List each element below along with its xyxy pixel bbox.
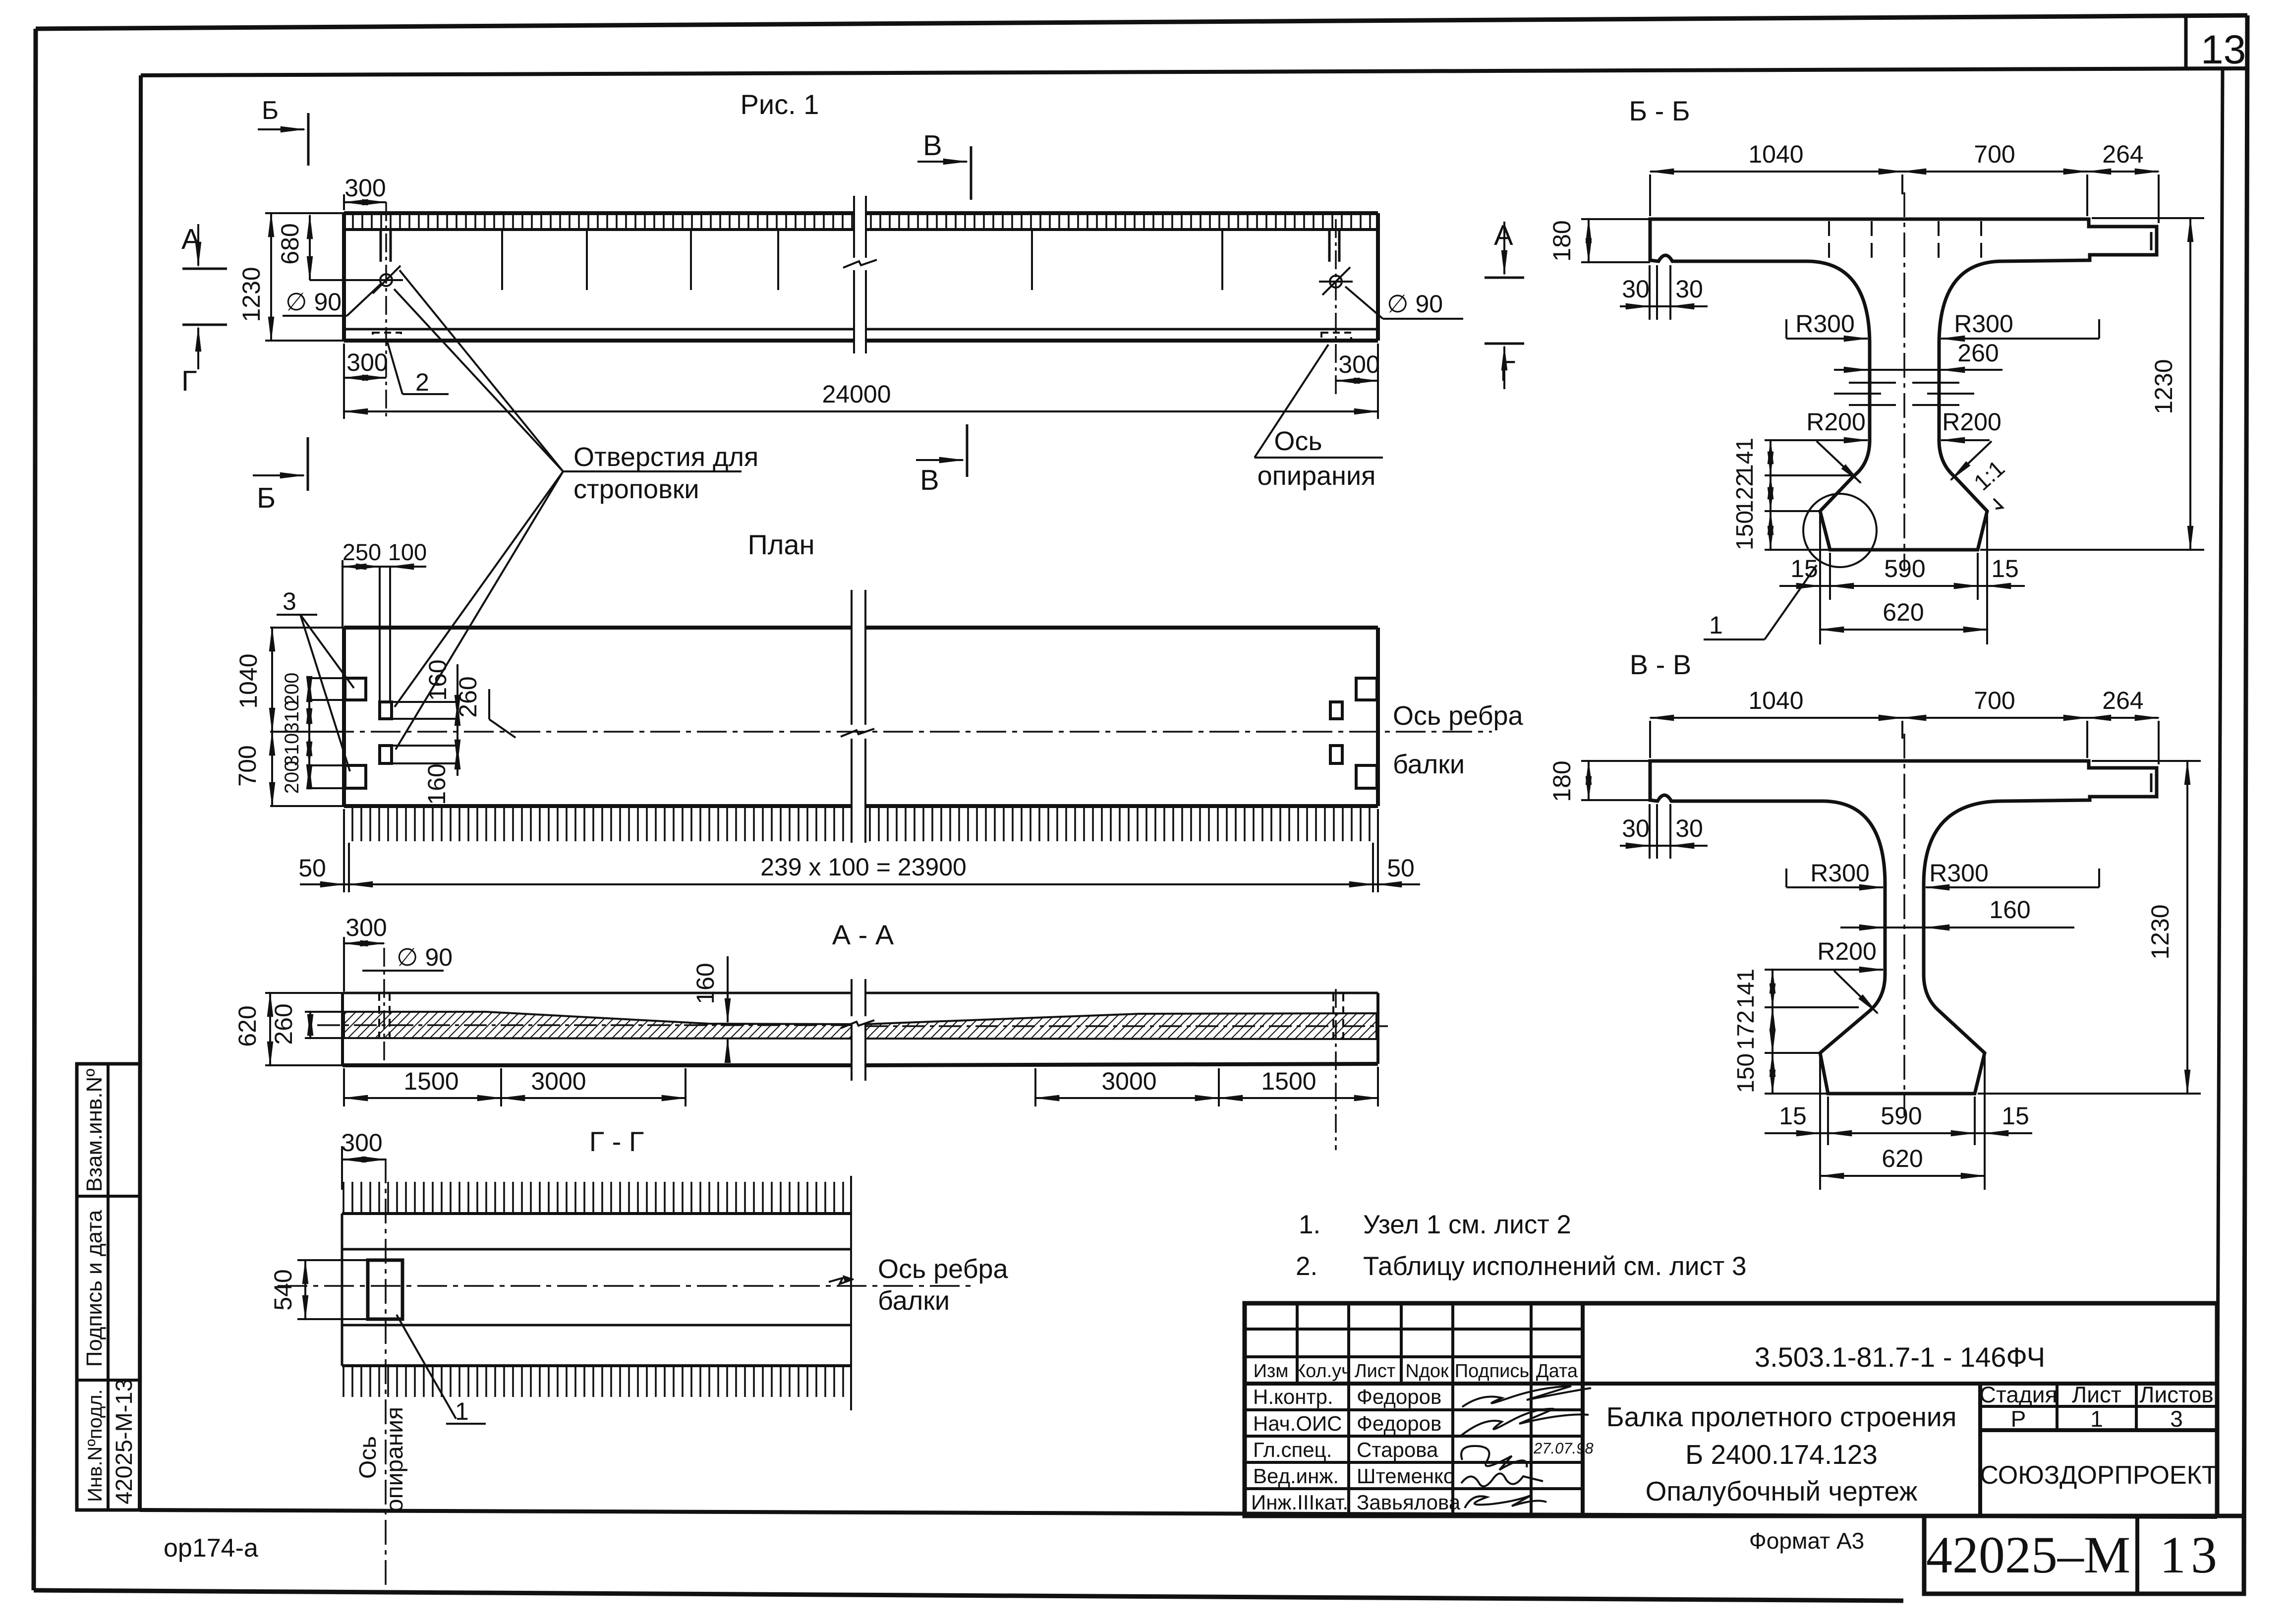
bottom doc number divider — [2135, 1516, 2139, 1594]
svg-text:строповки: строповки — [573, 474, 699, 504]
revision table verticals (upper rows) — [1296, 1303, 1299, 1384]
svg-text:R200: R200 — [1806, 408, 1866, 436]
svg-text:Изм: Изм — [1254, 1361, 1289, 1382]
groove lines lower — [392, 746, 457, 763]
svg-text:50: 50 — [298, 854, 326, 882]
svg-text:160: 160 — [691, 963, 719, 1004]
bearing plate dashed left — [373, 333, 401, 340]
svg-text:50: 50 — [1387, 854, 1415, 882]
svg-text:Рис. 1: Рис. 1 — [741, 89, 819, 120]
svg-text:42025-М-13: 42025-М-13 — [111, 1379, 137, 1504]
dim 30 30 at drip notch — [1650, 804, 1670, 859]
header row texts — [1254, 1361, 1578, 1382]
svg-text:Ось: Ось — [355, 1436, 381, 1479]
left attachment row line 1 — [77, 1195, 140, 1198]
hole hidden edges left — [379, 993, 390, 1038]
svg-text:опирания: опирания — [1258, 461, 1376, 491]
dim 260 web — [1834, 369, 2002, 371]
svg-text:А - А: А - А — [832, 919, 894, 950]
svg-text:Узел 1 см. лист 2: Узел 1 см. лист 2 — [1363, 1210, 1571, 1239]
svg-text:В: В — [923, 129, 942, 162]
svg-text:15: 15 — [1991, 555, 2019, 582]
svg-text:27.07.98: 27.07.98 — [1533, 1440, 1594, 1457]
hole axis vertical left — [383, 948, 385, 1066]
dim 620 — [1820, 629, 1987, 631]
svg-text:30: 30 — [1675, 275, 1703, 303]
dim R300 left — [1785, 319, 1787, 339]
dim 24000 — [343, 384, 345, 419]
dim 3000 left — [501, 1097, 686, 1099]
plan outline top — [344, 626, 852, 630]
section mark G right — [1485, 343, 1524, 345]
svg-text:300: 300 — [344, 174, 386, 202]
svg-text:180: 180 — [1548, 220, 1576, 261]
dim R200 left — [1784, 439, 1868, 441]
dim 180 — [1581, 219, 1650, 262]
hidden bulb edges in flange (dashed) — [1829, 221, 1981, 259]
break symbol — [841, 979, 874, 1081]
slab bottom line — [344, 228, 854, 231]
svg-text:Вед.инж.: Вед.инж. — [1253, 1464, 1339, 1488]
svg-text:260: 260 — [1957, 339, 1999, 367]
dim 3000 right — [1035, 1097, 1219, 1099]
plan outline bottom — [344, 804, 852, 808]
svg-text:150: 150 — [1732, 511, 1758, 550]
svg-text:R200: R200 — [1942, 408, 2002, 436]
signature rows role/name texts — [1251, 1385, 1461, 1514]
slab hatch left part — [346, 215, 854, 228]
beam left end edge — [342, 213, 346, 341]
svg-text:Инв.Nºподл.: Инв.Nºподл. — [84, 1389, 106, 1502]
svg-text:Дата: Дата — [1536, 1361, 1578, 1382]
section left edge — [341, 993, 344, 1065]
svg-text:30: 30 — [1622, 275, 1650, 303]
svg-text:141: 141 — [1733, 969, 1759, 1008]
left attachment table column divider — [107, 1064, 110, 1510]
svg-text:Б - Б: Б - Б — [1629, 95, 1690, 126]
bearing plate dashed right — [1321, 333, 1351, 340]
stage/sheet sub-table — [1978, 1384, 1982, 1516]
sheet number box top right — [2184, 17, 2188, 69]
dim 680 — [309, 215, 311, 280]
svg-text:264: 264 — [2102, 140, 2143, 168]
rib hatched band left — [344, 1012, 852, 1039]
svg-text:180: 180 — [1548, 760, 1576, 802]
dim 160 web — [1840, 927, 2074, 928]
dim 620 — [1820, 1175, 1985, 1177]
svg-text:Лист: Лист — [1355, 1361, 1396, 1382]
svg-text:Взам.инв.Nº: Взам.инв.Nº — [82, 1069, 107, 1192]
svg-text:Б: Б — [262, 96, 279, 125]
body inner line lower — [342, 1324, 851, 1327]
dim 15 590 15 — [1765, 1132, 2032, 1134]
small joint line in tongue — [2150, 232, 2153, 250]
dim R200 left — [1767, 969, 1883, 971]
svg-text:200: 200 — [281, 761, 303, 794]
svg-text:3.503.1-81.7-1 - 146ФЧ: 3.503.1-81.7-1 - 146ФЧ — [1755, 1341, 2045, 1373]
svg-text:620: 620 — [1883, 598, 1924, 626]
dim 260 rotated — [305, 1012, 347, 1038]
svg-text:1230: 1230 — [2146, 904, 2174, 959]
dim 15 590 15 — [1779, 585, 2025, 587]
detail circle node 1 — [1803, 494, 1877, 567]
lifting hole bottom left — [380, 746, 392, 763]
dim R200 right — [1941, 439, 1990, 441]
svg-text:3: 3 — [2170, 1406, 2183, 1432]
plan right edge — [1376, 628, 1380, 806]
dim 300 top left — [343, 194, 345, 210]
bulb dim extensions — [1820, 1055, 1985, 1190]
dim 300 bottom left — [343, 344, 345, 384]
T-beam profile outline — [1650, 761, 2157, 1094]
svg-text:Nдок: Nдок — [1405, 1361, 1449, 1382]
svg-text:160: 160 — [424, 659, 452, 700]
svg-text:Г: Г — [181, 365, 197, 397]
hole axis vertical right — [1335, 989, 1337, 1150]
svg-text:План: План — [748, 529, 815, 560]
hole axis horizontal right — [865, 1025, 1388, 1027]
web break dashes — [1834, 383, 1974, 405]
svg-text:Ось: Ось — [1274, 426, 1322, 456]
svg-text:42025–М: 42025–М — [1926, 1526, 2130, 1584]
svg-text:150: 150 — [1733, 1053, 1759, 1093]
top hatch band — [342, 1182, 851, 1213]
svg-text:122: 122 — [1732, 473, 1758, 513]
stirrup lines — [502, 230, 1222, 290]
svg-text:141: 141 — [1732, 438, 1758, 477]
lifting hole left — [380, 274, 392, 286]
svg-text:Таблицу исполнений см. лист 3: Таблицу исполнений см. лист 3 — [1363, 1252, 1746, 1281]
svg-text:Г - Г: Г - Г — [589, 1126, 644, 1157]
dim 300 — [341, 1146, 343, 1190]
svg-text:Балка пролетного строения: Балка пролетного строения — [1606, 1401, 1957, 1432]
svg-text:Опалубочный чертеж: Опалубочный чертеж — [1646, 1476, 1918, 1507]
dim 1040 / 700 left — [270, 627, 344, 629]
svg-text:Г: Г — [1500, 355, 1515, 387]
svg-text:∅ 90: ∅ 90 — [286, 288, 342, 316]
svg-text:ор174-а: ор174-а — [164, 1534, 258, 1563]
section axis (dash-dot) — [1903, 192, 1905, 570]
dim 300 bottom right — [1377, 344, 1379, 419]
svg-text:3000: 3000 — [531, 1067, 586, 1095]
svg-text:13: 13 — [2201, 27, 2246, 72]
dim 180 — [1581, 761, 1650, 800]
svg-text:Р: Р — [2011, 1406, 2026, 1432]
embedded square top left — [345, 678, 366, 700]
svg-text:балки: балки — [1393, 750, 1465, 779]
body right break edge — [850, 1176, 852, 1410]
plan left edge — [342, 628, 346, 806]
beam bottom line — [344, 339, 854, 343]
dim R300 right — [2098, 869, 2100, 887]
svg-text:Ось ребра: Ось ребра — [1393, 701, 1524, 731]
svg-text:Б 2400.174.123: Б 2400.174.123 — [1685, 1439, 1878, 1470]
svg-text:Листов: Листов — [2139, 1382, 2213, 1407]
beam axis centerline — [278, 731, 1492, 733]
svg-text:700: 700 — [233, 745, 261, 786]
svg-text:1: 1 — [2090, 1406, 2103, 1432]
svg-text:260: 260 — [270, 1003, 297, 1044]
svg-text:В: В — [920, 464, 939, 496]
svg-text:R300: R300 — [1954, 310, 2013, 338]
svg-text:∅ 90: ∅ 90 — [1387, 290, 1443, 318]
rib centerline — [278, 1285, 972, 1287]
section mark G left — [182, 324, 227, 326]
bearing plate — [368, 1260, 402, 1319]
section mark B top — [307, 113, 310, 166]
inner frame right — [2217, 69, 2223, 1513]
signature row lines — [1245, 1408, 1583, 1411]
outer border left — [34, 29, 36, 1590]
svg-text:Федоров: Федоров — [1357, 1412, 1441, 1435]
dim 1230 left — [265, 212, 344, 214]
label 1 with leader — [397, 1315, 456, 1419]
svg-text:2: 2 — [415, 368, 429, 396]
section axis (dash-dot) — [1903, 734, 1905, 1115]
body left edge — [341, 1214, 343, 1366]
inner frame top — [141, 68, 2247, 75]
svg-text:R300: R300 — [1810, 859, 1870, 887]
svg-text:1.: 1. — [1299, 1210, 1320, 1239]
svg-text:1040: 1040 — [234, 653, 262, 708]
svg-text:СОЮЗДОРПРОЕКТ: СОЮЗДОРПРОЕКТ — [1980, 1461, 2217, 1490]
svg-text:160: 160 — [1989, 896, 2030, 924]
svg-text:Инж.IIIкат.: Инж.IIIкат. — [1251, 1491, 1348, 1514]
dim 1230 right — [1978, 761, 2201, 1094]
section mark V top — [970, 146, 972, 200]
svg-text:250: 250 — [343, 539, 381, 565]
svg-text:R300: R300 — [1929, 859, 1989, 887]
svg-text:700: 700 — [1974, 140, 2015, 168]
svg-text:Федоров: Федоров — [1357, 1385, 1441, 1408]
small arrow to centerline — [829, 1278, 854, 1284]
svg-text:620: 620 — [233, 1005, 261, 1046]
lifting hole right — [1330, 276, 1342, 288]
label 2 with leader — [387, 341, 402, 394]
svg-text:620: 620 — [1882, 1145, 1923, 1172]
title block outline — [1245, 1303, 2217, 1516]
svg-text:160: 160 — [423, 763, 451, 805]
svg-text:300: 300 — [346, 348, 388, 376]
lifting hole top left — [380, 702, 392, 719]
svg-text:Старова: Старова — [1357, 1438, 1438, 1461]
svg-text:1040: 1040 — [1748, 687, 1803, 714]
embedded square bottom right — [1356, 765, 1377, 788]
svg-text:3: 3 — [283, 587, 296, 615]
small joint line in tongue — [2150, 773, 2153, 792]
inner frame bottom — [140, 1510, 2217, 1517]
top dims 1040 700 264 — [1650, 174, 2159, 223]
svg-text:Б: Б — [257, 482, 276, 514]
svg-text:300: 300 — [341, 1129, 382, 1157]
svg-text:540: 540 — [269, 1269, 297, 1310]
svg-text:264: 264 — [2102, 687, 2143, 714]
svg-text:R200: R200 — [1817, 937, 1877, 965]
svg-text:Отверстия для: Отверстия для — [573, 442, 758, 472]
revision/sig table right boundary — [1581, 1303, 1585, 1516]
groove lines upper — [392, 702, 457, 719]
bottom hatch band left — [349, 808, 852, 841]
dim R300 left — [1785, 869, 1787, 887]
section mark B bottom — [307, 437, 309, 491]
bottom dims extensions — [501, 1068, 1219, 1106]
inner frame left — [140, 75, 141, 1510]
stacked dims 200 310 310 200 — [307, 678, 347, 788]
svg-text:1:1: 1:1 — [1969, 455, 2009, 495]
embedded square top right — [1356, 678, 1377, 700]
svg-text:100: 100 — [388, 539, 427, 565]
svg-text:Ось ребра: Ось ребра — [878, 1254, 1009, 1284]
dim 300 top — [343, 937, 345, 991]
svg-text:Подпись: Подпись — [1455, 1361, 1529, 1382]
svg-text:700: 700 — [1974, 687, 2015, 714]
hole hidden edges right — [1333, 993, 1343, 1039]
revision table horizontals — [1245, 1328, 1583, 1331]
body bottom line — [342, 1364, 851, 1367]
svg-text:Гл.спец.: Гл.спец. — [1253, 1438, 1332, 1461]
signature squiggles — [1462, 1386, 1591, 1407]
svg-text:1500: 1500 — [1261, 1067, 1316, 1095]
svg-text:Штеменко: Штеменко — [1357, 1464, 1455, 1488]
slab hatch right part — [866, 215, 1376, 228]
lifting tube edges right — [1329, 230, 1339, 262]
svg-text:Формат А3: Формат А3 — [1749, 1528, 1864, 1554]
break symbol — [843, 196, 877, 353]
lifting tube edges left — [381, 230, 391, 262]
bottom dim line 50 / 239x100 / 50 — [343, 809, 345, 892]
lifting hole bottom right — [1330, 746, 1342, 763]
svg-text:Завьялова: Завьялова — [1357, 1491, 1461, 1514]
leaders from note to plan holes — [395, 471, 563, 707]
svg-text:260: 260 — [454, 676, 482, 717]
dim 540 — [297, 1260, 368, 1319]
svg-text:балки: балки — [878, 1286, 950, 1316]
outer border right — [2244, 15, 2247, 1594]
stacked dims 141 172 150 — [1765, 970, 1859, 1094]
svg-text:Нач.ОИС: Нач.ОИС — [1253, 1412, 1342, 1435]
svg-text:В - В: В - В — [1630, 649, 1691, 680]
beam right end edge — [1376, 213, 1380, 341]
bearing axis vertical — [385, 1159, 387, 1594]
T-beam profile outline — [1650, 219, 2157, 550]
body inner line upper — [342, 1248, 851, 1251]
dim 160 at web — [727, 956, 729, 1022]
left attachment table outline — [77, 1064, 140, 1510]
top dims 1040 700 264 — [1650, 721, 2159, 764]
dim 1500 left — [344, 1097, 501, 1099]
svg-text:30: 30 — [1675, 814, 1703, 842]
svg-text:300: 300 — [1338, 350, 1379, 378]
svg-text:2.: 2. — [1296, 1252, 1317, 1281]
hole axis horizontal left — [317, 1024, 852, 1026]
outer border bottom — [34, 1590, 1903, 1601]
svg-text:1230: 1230 — [237, 267, 265, 322]
svg-text:172: 172 — [1733, 1010, 1759, 1050]
svg-text:3000: 3000 — [1101, 1067, 1156, 1095]
bottom doc number block — [1924, 1516, 2244, 1594]
beam lower edge line — [344, 328, 854, 331]
stacked dims 141 122 150 — [1765, 440, 1854, 550]
svg-text:30: 30 — [1622, 814, 1650, 842]
svg-text:1500: 1500 — [403, 1067, 458, 1095]
svg-text:Стадия: Стадия — [1980, 1382, 2058, 1407]
lifting hole top right — [1330, 702, 1342, 719]
svg-text:300: 300 — [345, 914, 387, 941]
svg-text:590: 590 — [1884, 555, 1925, 582]
body top line — [342, 1212, 851, 1215]
svg-text:680: 680 — [276, 223, 304, 264]
svg-text:13: 13 — [2160, 1526, 2222, 1584]
svg-text:Н.контр.: Н.контр. — [1253, 1385, 1333, 1408]
bottom hatch band right — [865, 808, 1376, 841]
dim R300 right — [2098, 319, 2100, 339]
svg-text:24000: 24000 — [822, 380, 891, 408]
embedded square bottom left — [345, 765, 366, 788]
svg-text:1040: 1040 — [1748, 140, 1803, 168]
svg-text:310: 310 — [281, 700, 303, 734]
section mark V bottom — [966, 424, 969, 477]
svg-text:Лист: Лист — [2072, 1382, 2121, 1407]
beam top line — [344, 211, 854, 215]
svg-text:Подпись и дата: Подпись и дата — [82, 1210, 107, 1367]
dim 1230 right — [1980, 218, 2204, 550]
hole axis left (dash-dot) — [385, 202, 387, 419]
svg-text:15: 15 — [1779, 1102, 1807, 1130]
hidden web edges in flange (dashed) — [1872, 221, 1939, 259]
svg-text:Кол.уч: Кол.уч — [1295, 1361, 1351, 1382]
dim 30 30 at drip notch — [1650, 265, 1670, 320]
svg-text:239 х 100 = 23900: 239 х 100 = 23900 — [760, 853, 967, 881]
section right edge — [1376, 993, 1379, 1064]
plan break symbol — [841, 590, 874, 843]
svg-text:1230: 1230 — [2150, 359, 2177, 414]
rib hatched band right — [865, 1013, 1376, 1039]
outer border top — [36, 15, 2247, 29]
leaders from note to elevation hole — [394, 289, 563, 471]
section outline bottom — [343, 1063, 852, 1067]
bottom hatch band — [342, 1367, 851, 1397]
left attachment row line 2 — [77, 1379, 140, 1382]
dim 620 rotated — [265, 992, 343, 994]
svg-text:15: 15 — [2002, 1102, 2029, 1130]
svg-text:1: 1 — [1709, 611, 1723, 639]
bulb dim extensions — [1820, 513, 1987, 644]
hole axis right (dash-dot) — [1335, 219, 1337, 397]
dim 1500 right — [1219, 1097, 1378, 1099]
svg-text:1: 1 — [455, 1397, 469, 1425]
svg-text:опирания: опирания — [382, 1407, 408, 1512]
section outline top — [343, 992, 852, 994]
svg-text:590: 590 — [1881, 1102, 1922, 1130]
svg-text:∅ 90: ∅ 90 — [397, 943, 453, 971]
svg-text:R300: R300 — [1795, 310, 1855, 338]
